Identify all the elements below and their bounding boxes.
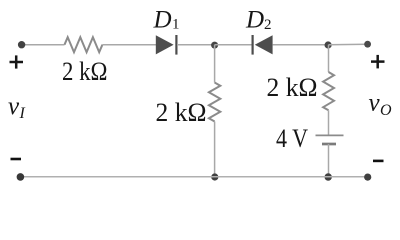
- wire node B to right terminal: [329, 43, 368, 45]
- junction dot bottom right branch: [325, 173, 332, 180]
- svg-text:v: v: [8, 93, 20, 120]
- minus sign left: [11, 158, 22, 161]
- terminal dot top left: [18, 41, 25, 48]
- wire R3 to battery: [328, 110, 330, 135]
- wire D1 to node A: [177, 44, 215, 46]
- terminal dot bottom right: [364, 174, 371, 181]
- svg-text:2: 2: [264, 17, 272, 33]
- svg-text:2 kΩ: 2 kΩ: [267, 73, 318, 102]
- diode D2: [253, 35, 273, 55]
- node B junction dot: [325, 41, 332, 48]
- diode D1: [156, 35, 177, 55]
- node A junction dot: [211, 42, 218, 49]
- svg-text:O: O: [380, 102, 392, 119]
- wire node B down to R3: [328, 45, 330, 72]
- battery V1 4V: [316, 135, 344, 144]
- wire R1 to D1: [102, 44, 156, 46]
- terminal dot top right: [364, 41, 371, 48]
- resistor R2 (2 kOhm vertical middle): [209, 83, 220, 122]
- plus sign left: [10, 55, 24, 68]
- wire node A down to R2: [214, 45, 216, 83]
- wire R2 down to bottom rail: [214, 122, 216, 177]
- plus sign right: [371, 55, 385, 69]
- svg-text:2 kΩ: 2 kΩ: [62, 57, 108, 86]
- resistor R3 (2 kOhm vertical right): [323, 72, 334, 110]
- wire battery to bottom rail: [328, 144, 330, 177]
- junction dot bottom middle: [211, 173, 218, 180]
- svg-text:D: D: [153, 7, 172, 34]
- resistor R1 (2 kOhm horizontal): [65, 37, 103, 52]
- wire bottom rail: [20, 176, 368, 178]
- terminal dot bottom left: [17, 173, 25, 181]
- svg-text:I: I: [19, 105, 26, 122]
- wire top rail left segment: [23, 44, 65, 46]
- svg-text:2 kΩ: 2 kΩ: [156, 98, 207, 127]
- svg-text:v: v: [369, 90, 381, 117]
- svg-text:4 V: 4 V: [276, 124, 308, 153]
- svg-text:D: D: [245, 7, 264, 34]
- minus sign right: [373, 160, 384, 163]
- svg-text:1: 1: [172, 16, 180, 32]
- wire D2 to node B: [273, 44, 329, 46]
- wire node A to D2: [215, 44, 252, 46]
